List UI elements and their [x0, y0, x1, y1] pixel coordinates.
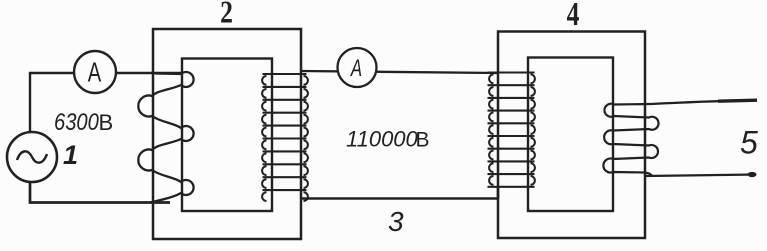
svg-text:2: 2: [220, 0, 233, 30]
transformer T2 core: [528, 58, 613, 212]
svg-text:5: 5: [740, 125, 758, 161]
T2 secondary winding L4: [603, 104, 658, 176]
svg-text:В: В: [99, 110, 114, 135]
svg-text:1: 1: [63, 140, 78, 170]
terminal dot: [748, 172, 757, 177]
wire output top: [651, 100, 757, 104]
svg-text:В: В: [416, 129, 430, 152]
T2 primary winding L3: [488, 73, 535, 187]
wire: [30, 181, 170, 203]
wire output bottom: [646, 175, 756, 177]
T1 primary winding L1: [138, 72, 193, 203]
wire thick end: [718, 100, 757, 101]
svg-text:A: A: [88, 57, 102, 88]
wire: [30, 73, 183, 133]
wire junction to bottom line: [497, 187, 500, 199]
svg-text:4: 4: [567, 0, 580, 33]
wire top line: [301, 71, 498, 73]
transformer T2 tank box: [498, 32, 645, 239]
svg-text:A: A: [349, 55, 362, 82]
AC generator G1: [7, 132, 57, 182]
wire bottom line 3: [301, 197, 498, 200]
svg-text:6300: 6300: [54, 108, 99, 135]
transformer T1 tank box: [153, 29, 301, 239]
svg-text:3: 3: [388, 206, 404, 237]
transformer T1 core: [182, 59, 272, 212]
svg-text:110000: 110000: [346, 127, 419, 152]
T1 secondary winding L2: [263, 74, 307, 190]
ammeter A1: [74, 51, 116, 93]
ammeter A2: [338, 48, 377, 87]
